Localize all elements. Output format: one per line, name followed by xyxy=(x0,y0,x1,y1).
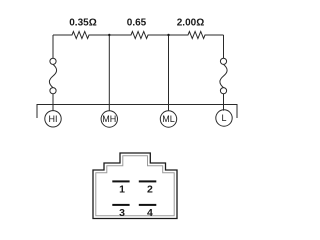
svg-text:L: L xyxy=(221,113,226,123)
svg-text:0.35Ω: 0.35Ω xyxy=(69,18,96,29)
svg-text:MH: MH xyxy=(102,114,116,124)
wire fuse F1 to terminal HI xyxy=(52,94,54,111)
pin 3 blade xyxy=(112,204,129,206)
svg-text:0.65: 0.65 xyxy=(127,18,147,29)
terminal ML circle xyxy=(160,111,176,127)
svg-text:2: 2 xyxy=(147,184,153,196)
svg-text:3: 3 xyxy=(119,207,125,219)
connector outer shell xyxy=(93,153,177,219)
pin 2 blade xyxy=(139,180,157,182)
svg-text:4: 4 xyxy=(147,207,153,219)
node junction rail-ML xyxy=(167,34,169,36)
wire right drop to fuse xyxy=(223,35,225,58)
wire left drop to fuse xyxy=(52,35,54,58)
fuse F1 top terminal xyxy=(50,58,56,64)
pin 4 blade xyxy=(139,204,157,206)
fuse F2 top terminal xyxy=(220,58,226,64)
svg-text:1: 1 xyxy=(119,184,125,196)
node junction rail-MH xyxy=(108,34,110,36)
fuse F1 element xyxy=(49,64,56,87)
svg-text:2.00Ω: 2.00Ω xyxy=(177,18,204,29)
terminal MH circle xyxy=(101,111,117,127)
fuse F1 bottom terminal xyxy=(50,88,56,94)
terminal L circle xyxy=(216,110,232,126)
fuse F2 bottom terminal xyxy=(220,88,226,94)
connector inner shell xyxy=(96,156,174,216)
housing bracket xyxy=(37,105,237,119)
terminal HI circle xyxy=(45,111,61,127)
wire top rail with resistors xyxy=(53,32,224,39)
fuse F2 element xyxy=(220,64,227,87)
pin 1 blade xyxy=(112,180,129,182)
wire rail to terminal MH xyxy=(108,35,110,111)
wire rail to terminal ML xyxy=(168,35,170,111)
svg-text:ML: ML xyxy=(162,114,175,124)
wire fuse F2 to terminal L xyxy=(223,94,225,111)
svg-text:HI: HI xyxy=(49,114,58,124)
